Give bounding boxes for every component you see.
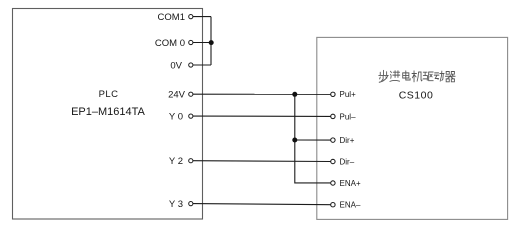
junction dot Dir+ — [292, 138, 297, 143]
char 动 — [434, 71, 444, 81]
pin terminal 24V — [189, 92, 193, 96]
svg-text:COM 0: COM 0 — [155, 38, 185, 49]
svg-text:24V: 24V — [168, 90, 186, 101]
wire Dir+ branch — [295, 139, 331, 141]
svg-text:CS100: CS100 — [399, 89, 434, 101]
pin terminal ENA- — [331, 203, 335, 207]
char 进 — [390, 71, 400, 82]
pin terminal Y3 — [189, 202, 193, 206]
svg-text:Y 3: Y 3 — [169, 199, 183, 210]
junction dot COM0 — [209, 40, 214, 45]
wire bus 24V vertical to ENA+ — [295, 94, 331, 183]
label 步进电机驱动器 (drawn glyphs) — [379, 70, 455, 82]
svg-text:ENA–: ENA– — [340, 201, 361, 210]
wires and pins — [193, 17, 331, 205]
char 驱 — [423, 72, 433, 81]
char 步 — [379, 70, 388, 82]
svg-text:Pul–: Pul– — [340, 112, 357, 121]
wire Y3 to ENA- — [193, 204, 331, 205]
pin terminal Pul+ — [331, 92, 335, 96]
wire 0V stub — [193, 64, 211, 66]
svg-text:Dir–: Dir– — [340, 157, 355, 166]
pin terminal ENA+ — [331, 181, 335, 185]
pin terminal Dir+ — [331, 138, 335, 142]
svg-text:EP1–M1614TA: EP1–M1614TA — [71, 106, 145, 118]
wire COM0 stub — [193, 42, 211, 44]
svg-text:PLC: PLC — [99, 89, 119, 100]
pin terminal COM0 — [189, 40, 193, 44]
stepper driver box U2 — [317, 37, 508, 219]
pin terminal Y0 — [189, 114, 193, 118]
wire Y0 to Pul- — [193, 115, 331, 117]
pin terminal 0V — [189, 63, 193, 67]
svg-text:Y 0: Y 0 — [169, 112, 183, 123]
svg-text:ENA+: ENA+ — [340, 179, 361, 188]
svg-text:Dir+: Dir+ — [340, 136, 355, 145]
char 机 — [412, 71, 422, 82]
char 电 — [403, 71, 410, 80]
junction dot 24V/Pul+ — [292, 92, 297, 97]
pin terminal Y2 — [189, 159, 193, 163]
PLC box U1 — [13, 9, 203, 220]
svg-text:Pul+: Pul+ — [340, 90, 357, 99]
wire bus COM1-0V vertical — [210, 17, 212, 65]
wire Y2 to Dir- — [193, 160, 331, 163]
svg-text:Y 2: Y 2 — [169, 156, 183, 167]
wire COM1 stub — [193, 16, 211, 18]
wire 24V to Pul+ — [193, 93, 331, 95]
char 器 — [445, 72, 455, 82]
pin terminal Pul- — [331, 114, 335, 118]
svg-text:0V: 0V — [170, 60, 182, 71]
svg-text:COM1: COM1 — [158, 12, 185, 23]
pin terminal COM1 — [189, 15, 193, 19]
pin terminal Dir- — [331, 159, 335, 163]
